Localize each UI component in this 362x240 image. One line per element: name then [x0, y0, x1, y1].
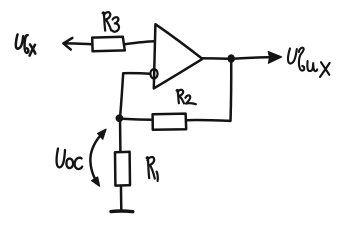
- resistor R1: [115, 152, 130, 186]
- R2 value label: [177, 90, 196, 104]
- input arrowhead (left): [63, 38, 72, 50]
- wire vertical down to node A: [120, 73, 123, 117]
- node B output junction dot: [228, 55, 234, 62]
- wire input arrow shaft: [64, 42, 92, 45]
- R3 value label: [103, 12, 119, 32]
- node Uoc label: [57, 149, 83, 169]
- wire feedback vertical: [229, 60, 232, 121]
- resistor R2: [153, 114, 187, 130]
- feedback curved arrow arc: [90, 132, 103, 182]
- node Uvyx label: [288, 48, 330, 77]
- wire R2 to feedback: [186, 119, 230, 122]
- R1 value label: [147, 157, 158, 181]
- wire output to arrow: [231, 57, 268, 59]
- output arrowhead (right): [268, 52, 281, 64]
- wire R1 to ground: [120, 186, 123, 211]
- wire node A to R1: [119, 119, 122, 152]
- resistor R3: [92, 37, 125, 52]
- wire inverting input to node: [123, 72, 150, 75]
- curved arrow head top: [98, 129, 106, 139]
- node A junction dot: [116, 115, 122, 121]
- curved arrow head bottom: [92, 177, 100, 186]
- ground: [111, 209, 133, 213]
- wire R3 to op-amp input: [125, 41, 155, 44]
- wire node A to R2: [121, 119, 153, 120]
- node Uvx label: [16, 35, 35, 56]
- wire op-amp output: [203, 57, 232, 60]
- op-amp U1: [154, 24, 203, 88]
- inverting input bubble: [150, 69, 157, 78]
